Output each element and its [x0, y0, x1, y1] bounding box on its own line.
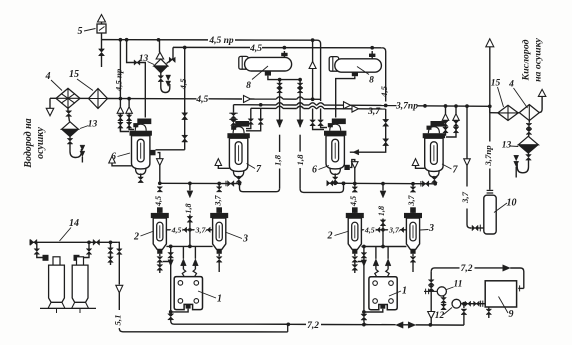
pipe manifold to filter 2 top	[157, 187, 163, 213]
label 4,5 rotated above filter 2	[154, 196, 163, 207]
svg-text:4,5: 4,5	[349, 196, 358, 207]
pipe L2 4,5 vessel-8 feed	[173, 46, 386, 58]
vent arrow top right x490	[486, 39, 494, 105]
label 4,5 small unit 2	[364, 225, 375, 234]
pipe manifold to filter 2 unit 2	[352, 184, 358, 213]
label 4 left	[45, 71, 63, 91]
svg-text:3,7пр: 3,7пр	[483, 145, 493, 167]
vessel 6-2 outlet jog to manifold	[350, 160, 358, 186]
filter 15 oxygen	[498, 105, 518, 120]
filter 3 unit 2 drain	[410, 254, 416, 272]
svg-text:5: 5	[78, 26, 83, 37]
label 5,1 rotated	[112, 315, 122, 326]
return riser unit 2	[361, 245, 368, 325]
label 6 unit 2	[312, 165, 329, 176]
adsorber vessel 6	[130, 119, 156, 175]
return riser unit 1	[168, 245, 177, 325]
label 4,5 пр	[208, 36, 234, 46]
adsorber vessel 7	[227, 121, 249, 177]
cross link 4,5/3,7 between filters unit 1	[166, 227, 212, 232]
filter 3 drain and valve	[216, 254, 222, 272]
svg-text:4,5: 4,5	[154, 196, 163, 207]
cross link between filters unit 2	[361, 227, 406, 232]
filter 3 unit 2	[404, 207, 422, 253]
hydrogen outlet pipe with down arrow	[46, 98, 56, 116]
label 3,7 small unit 1	[195, 225, 207, 234]
pipe to cylinder 10 with 3,7 label	[464, 106, 484, 231]
return line 7,2 upper	[177, 322, 290, 326]
flow arrow on H45	[244, 96, 251, 103]
vessel 6 bottom drain fitting	[138, 173, 144, 182]
bottle 2 connection	[74, 242, 92, 260]
svg-text:4,5: 4,5	[379, 85, 389, 98]
pipe L1 4,5pr header	[102, 38, 321, 58]
svg-text:3: 3	[428, 223, 434, 234]
svg-text:1,8: 1,8	[295, 154, 305, 166]
valve right of separator 13 top and riser to L2	[167, 47, 176, 63]
label 15 left	[69, 69, 93, 91]
drop pipes from H37 to vessel 7-2	[441, 106, 459, 137]
filter 2 drain link to return riser	[163, 262, 171, 264]
svg-text:8: 8	[246, 81, 251, 91]
label 9	[499, 297, 514, 321]
vessel 6-2 bottom drain fitting	[332, 173, 338, 185]
filter 2	[151, 207, 169, 253]
label 4,5 rotated x385	[379, 85, 389, 98]
pipe manifold to filter 3 unit 2	[410, 184, 416, 213]
label 3,7пр on H37	[395, 101, 418, 111]
adsorber vessel 7 unit 2	[423, 121, 445, 177]
label 4 right	[508, 80, 527, 109]
svg-text:3,7: 3,7	[460, 191, 470, 204]
svg-text:10: 10	[507, 198, 517, 209]
label 1,8 rotated unit 1 center	[184, 203, 193, 213]
svg-text:4,5: 4,5	[249, 44, 262, 54]
label 11	[447, 280, 463, 290]
valve under node 5	[99, 40, 105, 67]
filter 2 unit 2	[346, 207, 364, 253]
main return line 7,2	[288, 322, 464, 329]
separator 13 left	[62, 116, 79, 136]
label 4,5 пр rotated	[114, 68, 124, 92]
svg-text:Водород на: Водород на	[23, 118, 34, 168]
drop pipe x120 with vent triangle and valves	[117, 40, 129, 132]
center 1,8 pipe unit 2	[380, 184, 386, 249]
label 3,7 rotated above filter 3 unit 2	[407, 194, 416, 206]
valve under oxygen filters	[526, 121, 532, 137]
svg-text:на осушку: на осушку	[533, 37, 544, 81]
valve under filter 4 left	[66, 108, 72, 116]
drop pipes to vessel 7 dome right	[246, 108, 263, 131]
vessel 6 left vent stub	[109, 156, 132, 166]
receiver vessel 8 no.1	[239, 51, 292, 76]
bypass pipe from L1 to vessel 6 dome	[127, 40, 146, 118]
separator 13 top with vent triangle	[154, 40, 168, 73]
cooler box 9	[485, 281, 516, 307]
label 8 no.2	[357, 67, 374, 86]
return line 5,1 lower	[126, 331, 288, 333]
filter 2 unit 2 drain link	[358, 262, 364, 264]
separator 13 left drain with arrows	[67, 137, 85, 163]
svg-text:12: 12	[435, 311, 445, 321]
step jog into oxygen filters	[490, 106, 498, 113]
label 13 top	[139, 54, 154, 65]
svg-text:4,5: 4,5	[178, 78, 188, 91]
label 12	[435, 308, 452, 322]
label 2 unit 1	[133, 232, 153, 243]
svg-text:5,1: 5,1	[112, 315, 122, 326]
svg-text:Кислород: Кислород	[521, 39, 532, 81]
label 13 left	[80, 120, 98, 130]
drain of separator 13 top with arrows	[158, 73, 171, 93]
vessel 7 bottom drain to manifold	[236, 176, 242, 186]
svg-text:2: 2	[327, 231, 333, 242]
pipe x490 to cylinder 10 with 3,7пр label	[489, 106, 491, 190]
label 1,8 rotated unit 2 center	[377, 206, 386, 216]
bottles manifold 14	[30, 239, 117, 245]
svg-text:8: 8	[369, 76, 374, 86]
riser x385 from L2 to vessel 6-2 side	[350, 58, 389, 155]
riser from return line to pump 12	[461, 304, 467, 325]
flow arrow on H37b	[352, 106, 359, 113]
pump 11	[437, 287, 446, 296]
label 10	[494, 198, 517, 213]
gas bottle 2	[72, 257, 89, 309]
unit 1 collecting manifold	[160, 181, 240, 187]
text Кислород на осушку	[521, 37, 544, 81]
svg-text:7,2: 7,2	[307, 321, 319, 331]
label 7,2 bottom	[307, 321, 319, 331]
bottles base line	[40, 308, 96, 313]
cooler 9 bottom stub	[486, 307, 492, 318]
svg-text:4,5: 4,5	[195, 95, 208, 105]
unit 2 collecting manifold	[327, 180, 435, 186]
label 3 unit 2	[420, 223, 434, 234]
svg-text:13: 13	[88, 120, 98, 130]
svg-text:3,7: 3,7	[195, 225, 207, 234]
svg-text:1,8: 1,8	[273, 154, 283, 166]
label 3 unit 1	[227, 233, 249, 245]
junction bar joining return lines	[287, 324, 289, 332]
svg-text:3: 3	[242, 234, 248, 245]
svg-text:13: 13	[139, 54, 149, 64]
label 5	[78, 26, 96, 37]
svg-text:1,8: 1,8	[184, 203, 193, 213]
svg-text:3,7: 3,7	[407, 194, 416, 206]
pipe H37 3,7 header	[234, 103, 492, 109]
compressor suction drops with arrows unit 1	[181, 246, 199, 276]
lower link between filters unit 1	[166, 245, 212, 247]
filter 4 oxygen	[518, 105, 539, 121]
separator 13 oxygen	[518, 136, 538, 153]
svg-text:15: 15	[491, 79, 501, 89]
svg-text:11: 11	[454, 280, 463, 290]
vessel 7-2 left vent stub	[412, 159, 424, 169]
svg-text:4,5: 4,5	[364, 225, 375, 234]
svg-text:4,5 пр: 4,5 пр	[114, 68, 124, 92]
gas bottle 1	[48, 257, 65, 309]
loop pipe 7,2 to cooler 9	[431, 265, 524, 292]
svg-text:1,8: 1,8	[377, 206, 386, 216]
label 8 no.1	[246, 66, 268, 91]
label 4,5 on H45	[195, 95, 208, 105]
label 7 unit 2	[442, 164, 459, 176]
label 3,7пр rotated	[483, 145, 493, 167]
lower link between filters unit 2	[361, 246, 406, 248]
filter 15 (left diamond)	[80, 89, 108, 109]
pump 12 discharge to cooler 9	[461, 301, 485, 307]
1,8 drain line left with valves and arrow	[240, 80, 283, 192]
label 3,7 on H37	[367, 107, 381, 117]
gauge stub pump 11	[424, 289, 437, 295]
svg-text:15: 15	[69, 69, 79, 80]
svg-text:9: 9	[509, 309, 514, 320]
svg-text:4: 4	[45, 71, 51, 82]
label 7 unit 1	[247, 164, 263, 176]
compressor 1 unit 2 drain	[364, 305, 385, 313]
bottles header stub with valves	[108, 242, 114, 265]
compressor 1 unit 2	[369, 277, 397, 310]
drop pipe x129 with vent triangle and valves	[126, 99, 134, 130]
filter 4 (left diamond)	[56, 88, 80, 108]
vessel 7 left vent stub	[215, 159, 229, 169]
svg-text:14: 14	[69, 218, 79, 229]
label 15 right	[491, 79, 504, 108]
dryer cylinder 10	[484, 190, 496, 234]
bottle 1 connection	[34, 242, 49, 260]
label 4,5 small unit 1	[171, 225, 182, 234]
text Водород на осушку	[23, 118, 46, 168]
svg-text:3,7пр: 3,7пр	[395, 101, 418, 111]
vessel 8 no.2 drain pipe to vessel 6-2 dome	[336, 76, 355, 117]
receiver vessel 8 no.2	[329, 51, 381, 76]
vessel 8 no.1 drain manifold	[268, 76, 302, 82]
separator 13 oxygen drain with arrows	[514, 153, 532, 177]
label 3,7 rotated above filter 3	[213, 194, 222, 206]
compressor 1 drain	[171, 304, 191, 312]
label 2 unit 2	[327, 231, 348, 242]
pipe manifold to filter 3 top	[216, 184, 222, 213]
label 6 left	[111, 152, 130, 163]
svg-text:1: 1	[217, 294, 222, 305]
oxygen outlet pipe with up arrow	[538, 89, 546, 112]
svg-text:4: 4	[508, 80, 514, 90]
pump 12	[452, 299, 461, 308]
compressor 1 unit 1	[174, 277, 202, 310]
drop pipe x320 with valve	[318, 58, 327, 128]
label 13 right	[502, 141, 519, 151]
compressor suction drops unit 2	[373, 247, 391, 277]
pipe from H37 to vessel 7 dome	[229, 105, 237, 128]
label 14	[60, 218, 80, 241]
svg-text:3,7: 3,7	[388, 225, 400, 234]
svg-text:13: 13	[502, 141, 512, 151]
svg-text:1: 1	[402, 286, 407, 297]
vessel 6 drain to unit-1 manifold	[157, 153, 164, 186]
1,8 drain line right with valves and arrow	[297, 80, 346, 193]
pipe H45 4,5 line	[108, 97, 321, 101]
svg-text:3,7: 3,7	[213, 194, 222, 206]
adsorber vessel 6 unit 2	[324, 119, 350, 175]
label 1,8 rotated right	[295, 154, 305, 166]
filter 2 unit 2 drain	[352, 254, 358, 273]
flow arrow on H37	[344, 102, 351, 109]
svg-text:4,5 пр: 4,5 пр	[208, 36, 234, 46]
5,1 return pipe from bottles	[116, 242, 126, 331]
label 1 unit 1	[198, 291, 222, 305]
svg-text:4,5: 4,5	[171, 225, 182, 234]
drop pipe x312 with vent triangle and valve	[309, 40, 324, 129]
pump riser x431	[428, 271, 435, 325]
valves under pump 11	[441, 296, 447, 310]
svg-text:6: 6	[312, 165, 317, 176]
filter 3	[210, 207, 228, 253]
vessel 7-2 bottom drain to manifold	[432, 176, 438, 186]
svg-text:2: 2	[133, 232, 139, 243]
label 4,5 on L2	[249, 44, 262, 54]
label 4,5 rotated x185	[178, 78, 188, 91]
relief device 5 with vent triangle	[97, 15, 106, 40]
svg-text:осушку: осушку	[35, 127, 46, 159]
pipe H37b second 3,7 line	[251, 106, 386, 109]
svg-text:7,2: 7,2	[461, 264, 473, 274]
label 1,8 rotated left	[273, 154, 283, 166]
pipe from L2 down to vessel 6 inlet	[156, 47, 188, 149]
label 4,5 rotated above filter 2 unit 2	[349, 196, 358, 207]
label 3,7 small unit 2	[388, 225, 400, 234]
label 1 unit 2	[389, 286, 407, 297]
filter 2 drain and valve	[157, 254, 163, 273]
center 1,8 pipe unit 1	[187, 183, 193, 248]
label 7,2 loop	[461, 264, 473, 274]
label 3,7 rotated cylinder line	[460, 191, 470, 204]
